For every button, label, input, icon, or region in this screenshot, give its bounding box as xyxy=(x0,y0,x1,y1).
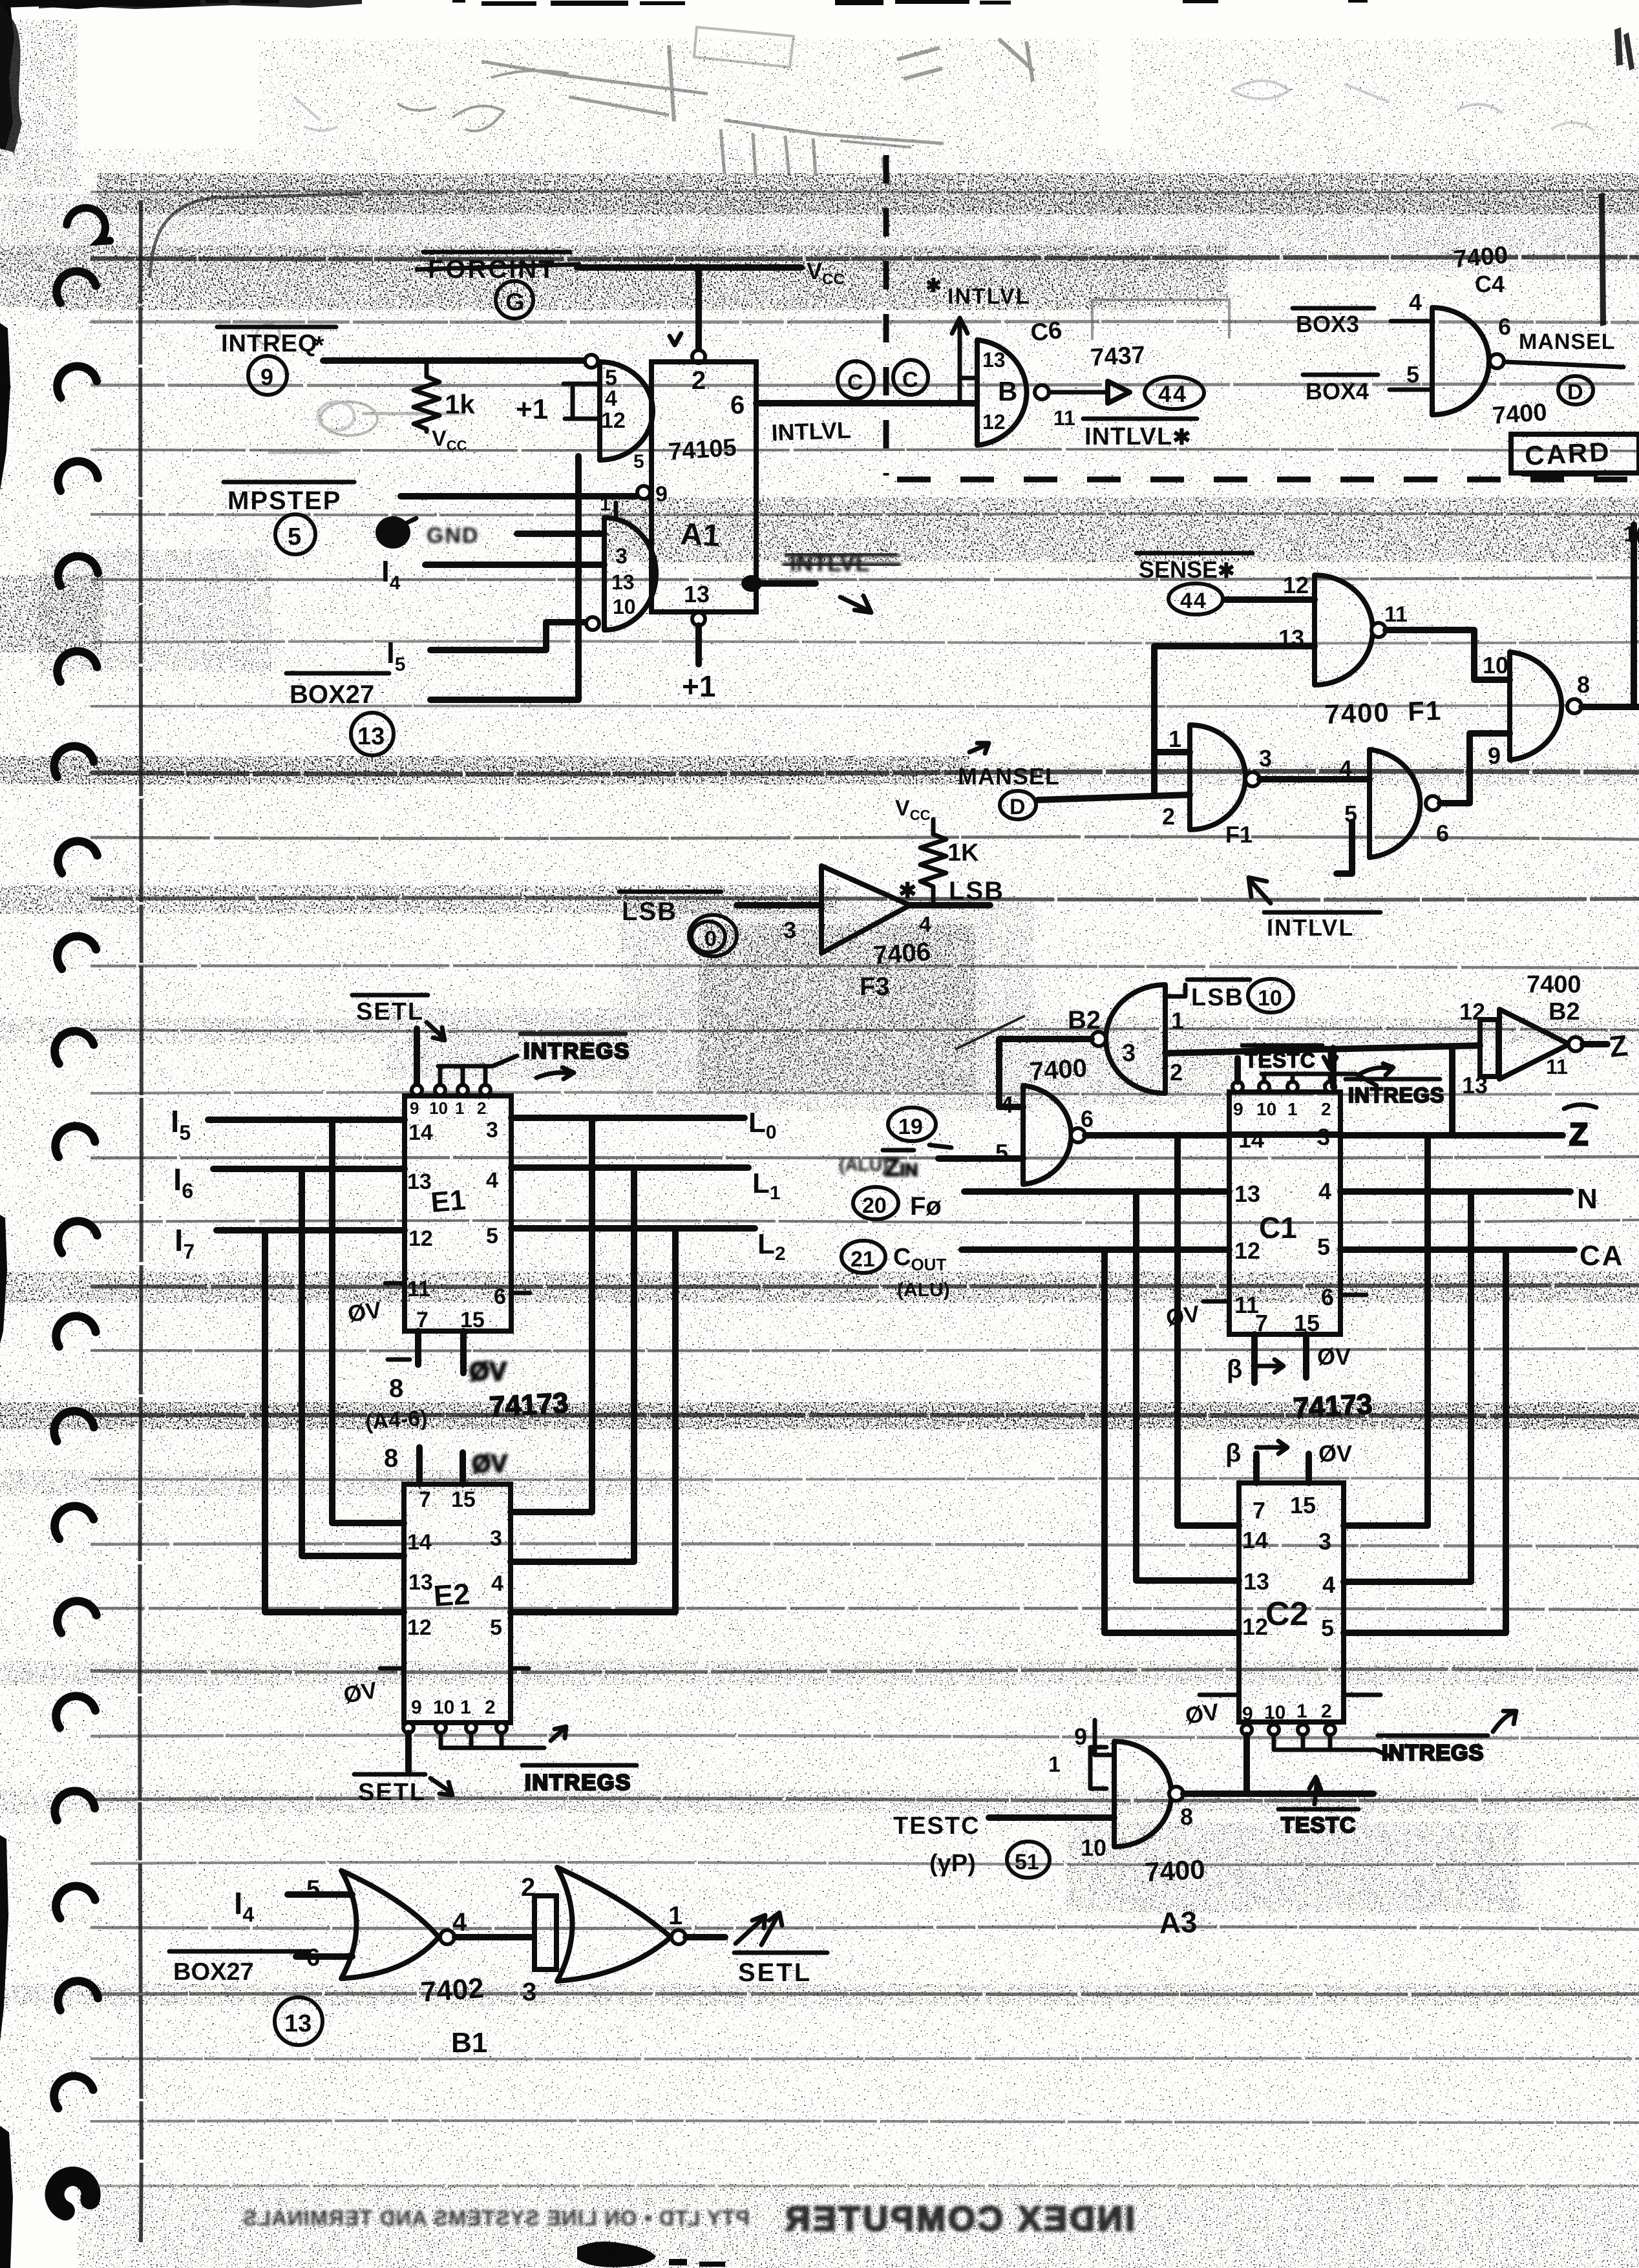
svg-text:1: 1 xyxy=(1171,1007,1184,1034)
CARD label box xyxy=(1511,434,1639,474)
svg-text:PTY LTD • ON LINE SYSTEMS AND: PTY LTD • ON LINE SYSTEMS AND TERMINALS xyxy=(242,2206,750,2230)
INTLVL arrow label xyxy=(1249,877,1271,903)
svg-text:5: 5 xyxy=(1406,361,1419,388)
E1 pin7 wire down, 8bar xyxy=(415,1331,421,1365)
svg-text:BOX27: BOX27 xyxy=(173,1958,254,1986)
wire pin2 net up xyxy=(1330,1048,1337,1087)
svg-text:7: 7 xyxy=(1253,1497,1265,1524)
svg-text:7400: 7400 xyxy=(1527,971,1581,998)
svg-text:5: 5 xyxy=(1317,1234,1330,1260)
svg-text:3: 3 xyxy=(522,1978,536,2006)
svg-text:1K: 1K xyxy=(947,839,979,866)
svg-text:B2: B2 xyxy=(1068,1006,1101,1034)
spiral binder holes, left edge xyxy=(48,203,111,2212)
resistor R 1k pull-up xyxy=(414,361,475,454)
svg-text:7406: 7406 xyxy=(872,938,932,970)
node BOX3 xyxy=(1293,308,1374,337)
gate A1a (pins 5,4,12) xyxy=(600,362,653,460)
svg-text:4: 4 xyxy=(1409,289,1422,315)
wire B1a out to B1b xyxy=(455,1934,531,1940)
svg-text:A3: A3 xyxy=(1159,1905,1198,1940)
pen arrows xyxy=(735,1913,782,1945)
C2 bottom bubbles xyxy=(1242,1725,1252,1735)
wire LSB to buffer xyxy=(737,902,821,908)
svg-text:13: 13 xyxy=(684,581,710,607)
svg-text:1: 1 xyxy=(1287,1099,1298,1119)
svg-text:TESTC: TESTC xyxy=(1245,1049,1316,1072)
svg-text:51: 51 xyxy=(1015,1850,1039,1874)
ghost rect around 7437 xyxy=(1092,300,1229,340)
wire inverter out Z xyxy=(1583,1041,1607,1047)
E2 pin11 stub, 0V xyxy=(380,1666,404,1671)
svg-text:C6: C6 xyxy=(1030,317,1064,347)
input bubble xyxy=(585,355,598,368)
wire branch up from Zbar to inverter net xyxy=(1449,1047,1455,1135)
node TESTC bar under wire xyxy=(1278,1777,1359,1838)
v tick above gate xyxy=(670,333,681,345)
wire B1b out SETL xyxy=(686,1934,725,1940)
svg-text:44: 44 xyxy=(1180,589,1207,613)
INTLVL up arrow from gate input xyxy=(925,275,1030,403)
svg-text:12: 12 xyxy=(408,1226,433,1251)
pin 5 stub xyxy=(1390,388,1432,392)
svg-text:4: 4 xyxy=(919,912,931,937)
E1 pin6 stub xyxy=(511,1291,530,1296)
wire I7 branch down to E2 pin12 xyxy=(265,1230,404,1612)
svg-text:14: 14 xyxy=(1242,1527,1268,1553)
C2 pin3 stub xyxy=(1344,1522,1428,1529)
svg-text:6: 6 xyxy=(494,1285,506,1309)
svg-text:9: 9 xyxy=(1074,1723,1087,1750)
svg-text:12: 12 xyxy=(1242,1613,1268,1640)
E2 pin15 wire up, 0V xyxy=(460,1453,466,1484)
svg-text:5: 5 xyxy=(306,1876,320,1903)
wire 44 to F1a pin12 xyxy=(1225,596,1315,603)
inverter B2 7400 xyxy=(1499,1009,1569,1079)
svg-text:2: 2 xyxy=(1162,803,1175,830)
pen pointer line xyxy=(955,1016,1025,1049)
svg-text:8: 8 xyxy=(1180,1803,1193,1830)
node TESTC down to pin 9 xyxy=(1234,1058,1241,1082)
svg-text:✱: ✱ xyxy=(925,275,942,297)
svg-text:7400: 7400 xyxy=(1144,1854,1206,1887)
node 20 circled F0 xyxy=(853,1187,898,1219)
wire INTREQ to gate xyxy=(323,357,585,364)
pin 9 bubble xyxy=(637,486,650,499)
svg-text:B1: B1 xyxy=(451,2027,487,2059)
svg-text:(ALU): (ALU) xyxy=(897,1279,950,1301)
svg-text:1: 1 xyxy=(1048,1752,1061,1777)
gate F1c (4,5,6) xyxy=(1369,750,1420,857)
node C circled (right of boundary) xyxy=(893,360,928,395)
svg-text:TESTC: TESTC xyxy=(893,1812,980,1840)
svg-text:(γP): (γP) xyxy=(929,1850,976,1877)
gate A1b (pins 3,13,10) xyxy=(604,518,656,630)
svg-text:3: 3 xyxy=(490,1526,502,1551)
svg-text:3: 3 xyxy=(1122,1040,1136,1067)
svg-text:6: 6 xyxy=(1436,820,1449,846)
svg-text:1(: 1( xyxy=(1623,522,1639,547)
node 13 circled bottom xyxy=(275,1997,323,2045)
svg-text:12: 12 xyxy=(1459,998,1485,1025)
svg-text:4: 4 xyxy=(486,1168,498,1193)
svg-text:15: 15 xyxy=(451,1487,476,1512)
svg-text:4: 4 xyxy=(1000,1091,1013,1118)
svg-text:13: 13 xyxy=(284,2010,312,2037)
svg-text:SENSE✱: SENSE✱ xyxy=(1139,556,1235,583)
node 21 circled Cout xyxy=(841,1241,885,1273)
svg-text:BOX27: BOX27 xyxy=(290,680,374,709)
svg-text:13: 13 xyxy=(1243,1568,1269,1595)
svg-text:LSB: LSB xyxy=(949,877,1004,905)
heavier speckle bands (smudges along rules) xyxy=(97,173,1639,215)
svg-text:10: 10 xyxy=(1258,986,1282,1011)
node SETL bottom xyxy=(354,1774,452,1806)
svg-text:13: 13 xyxy=(408,1570,433,1595)
node D circled in xyxy=(1000,791,1036,819)
C1 pin11 stub 0V xyxy=(1203,1299,1229,1304)
wire branch down to C2 pin14 xyxy=(1178,1135,1239,1526)
svg-text:7400 F1: 7400 F1 xyxy=(1324,695,1443,730)
svg-text:6: 6 xyxy=(730,391,745,419)
node G xyxy=(496,281,533,319)
svg-text:INTLVL✱: INTLVL✱ xyxy=(1084,423,1192,450)
node BOX27 xyxy=(286,673,389,709)
svg-text:10: 10 xyxy=(1264,1702,1285,1723)
svg-text:8: 8 xyxy=(389,1374,403,1403)
svg-text:4: 4 xyxy=(491,1571,503,1596)
wire branch down to C2 pin3 xyxy=(1424,1135,1431,1526)
svg-text:ØV: ØV xyxy=(1183,1698,1220,1729)
node 13 circled xyxy=(351,713,394,755)
svg-text:2: 2 xyxy=(477,1098,486,1118)
svg-text:SETL: SETL xyxy=(358,1779,426,1806)
svg-text:11: 11 xyxy=(1546,1055,1568,1078)
node 19 circled xyxy=(888,1108,951,1148)
wire I5 branch down to E2 pin14 xyxy=(332,1120,404,1523)
wire I6 branch down to E2 pin13 xyxy=(302,1169,404,1556)
faint ghost circles under INTREQ xyxy=(257,324,465,452)
gate B C6 7437 xyxy=(977,340,1027,445)
gate B2a mirrored NAND (1,2 -> 3) xyxy=(1106,985,1165,1093)
node 10 circled xyxy=(689,915,737,956)
svg-text:3: 3 xyxy=(783,917,796,943)
wire SETL to E1 pin9 xyxy=(414,1029,420,1084)
svg-text:10: 10 xyxy=(1256,1099,1276,1119)
E1 top pin bubbles xyxy=(412,1085,422,1095)
wire I5 to gate pin10 xyxy=(430,622,585,650)
node LSB in xyxy=(619,892,721,926)
svg-text:14: 14 xyxy=(408,1120,433,1145)
wire F1d out xyxy=(1581,704,1639,710)
svg-text:21: 21 xyxy=(851,1247,875,1272)
E2 pin6 stub xyxy=(511,1666,529,1671)
svg-text:7: 7 xyxy=(419,1487,431,1512)
wire INTLVL into pin5 xyxy=(1337,822,1352,874)
svg-text:20: 20 xyxy=(862,1193,887,1218)
svg-text:✱: ✱ xyxy=(898,879,917,903)
mirrored photocopy text at bottom xyxy=(242,2200,1135,2238)
svg-text:Z: Z xyxy=(1569,1118,1588,1152)
svg-text:D: D xyxy=(1010,795,1026,819)
svg-text:Z: Z xyxy=(1608,1028,1629,1064)
wire E1 pin5 to L2 xyxy=(511,1225,755,1232)
left margin rule of notebook page xyxy=(140,200,142,2242)
svg-text:13: 13 xyxy=(407,1170,432,1194)
bottom-left ink blob xyxy=(577,2242,656,2267)
node INTLVL* out xyxy=(1083,419,1197,450)
svg-text:6: 6 xyxy=(1081,1106,1094,1132)
svg-text:3: 3 xyxy=(1259,745,1272,772)
svg-text:INTREGS: INTREGS xyxy=(1348,1084,1444,1107)
svg-text:2: 2 xyxy=(692,366,706,395)
E2 pin7 wire up xyxy=(416,1447,423,1484)
svg-text:INTLVL: INTLVL xyxy=(947,284,1030,309)
svg-text:C1: C1 xyxy=(1259,1211,1297,1244)
svg-text:1: 1 xyxy=(455,1098,464,1118)
svg-text:CA: CA xyxy=(1580,1240,1625,1272)
svg-text:F1: F1 xyxy=(1225,821,1253,848)
svg-text:+1: +1 xyxy=(516,394,548,425)
node 10 circled mid xyxy=(1248,979,1293,1013)
E1 pin15 wire down, 0V xyxy=(460,1331,467,1373)
svg-text:1: 1 xyxy=(1296,1701,1307,1722)
node INTREGS mid xyxy=(1346,1064,1444,1107)
wire buffer out LSB xyxy=(910,902,990,908)
svg-text:13: 13 xyxy=(611,571,635,594)
svg-text:9: 9 xyxy=(1488,742,1501,769)
E2 bottom bubbles xyxy=(403,1723,414,1733)
svg-text:9: 9 xyxy=(260,364,273,390)
node 44 circled in xyxy=(1168,583,1223,614)
wire MPSTEP to pin 9 xyxy=(401,493,637,499)
wire I5 to E1 pin14 xyxy=(208,1117,405,1123)
svg-text:3: 3 xyxy=(486,1118,498,1142)
wire C1 pin3 out Zbar xyxy=(1340,1132,1563,1139)
svg-text:13: 13 xyxy=(1234,1181,1260,1207)
svg-text:CARD: CARD xyxy=(1524,436,1612,471)
svg-text:13: 13 xyxy=(982,348,1006,372)
svg-text:B2: B2 xyxy=(1549,998,1580,1025)
svg-text:7400: 7400 xyxy=(1029,1054,1088,1086)
svg-text:E1: E1 xyxy=(430,1184,467,1219)
wire C1 pin5 out CA xyxy=(1340,1246,1574,1253)
wire I6 to E1 pin13 xyxy=(213,1166,405,1172)
svg-text:11: 11 xyxy=(1053,406,1075,430)
pin 2 bubble xyxy=(692,350,705,363)
svg-text:INDEX COMPUTER: INDEX COMPUTER xyxy=(783,2200,1135,2238)
node MPSTEP xyxy=(224,482,354,515)
svg-text:5: 5 xyxy=(633,451,644,472)
node +1 to tied inputs xyxy=(516,384,600,425)
svg-text:2: 2 xyxy=(521,1873,535,1902)
svg-text:12: 12 xyxy=(1234,1237,1260,1264)
svg-text:E2: E2 xyxy=(432,1577,471,1613)
IC C1 74173 xyxy=(1229,1092,1340,1334)
C2 pin5 stub xyxy=(1344,1630,1506,1636)
svg-text:8: 8 xyxy=(384,1444,398,1473)
C1 pin6 stub xyxy=(1340,1293,1366,1297)
node SETL top xyxy=(352,995,445,1040)
wire F1a out to F1d pin10 xyxy=(1386,630,1510,680)
svg-text:5: 5 xyxy=(1321,1615,1334,1641)
svg-text:0: 0 xyxy=(704,927,717,951)
svg-text:C4: C4 xyxy=(1475,271,1505,297)
svg-text:MANSEL: MANSEL xyxy=(958,763,1060,790)
pin9 elbow xyxy=(1095,1720,1114,1755)
svg-text:1: 1 xyxy=(600,494,611,515)
wire A1 pin6 out (INTLVL) xyxy=(756,400,976,406)
gate B1a 7402 NOR (5,6 -> 4) xyxy=(341,1871,439,1979)
svg-text:74105: 74105 xyxy=(668,434,737,466)
wire right edge vertical xyxy=(1631,525,1637,704)
svg-text:13: 13 xyxy=(1462,1072,1488,1098)
gate F1d (10,9,8) xyxy=(1510,652,1561,760)
node C circled (left of boundary) xyxy=(838,361,874,399)
node GND xyxy=(375,516,480,549)
C2 pin4 stub xyxy=(1344,1579,1471,1585)
INTREGS bracket on C1 xyxy=(1262,1074,1377,1086)
wire Cout to C1 pin12 xyxy=(962,1246,1229,1253)
svg-text:8: 8 xyxy=(1577,671,1590,698)
wire F0 to C1 pin13 xyxy=(964,1188,1229,1195)
node 9 circled xyxy=(248,356,287,395)
node INTREGS bottom left xyxy=(522,1727,637,1795)
IC E2 74173 xyxy=(404,1484,511,1723)
svg-text:7400: 7400 xyxy=(1492,399,1548,430)
svg-text:ØV: ØV xyxy=(1317,1343,1351,1370)
wire C2 pin9 down to TESTC net xyxy=(1243,1735,1250,1794)
C2 pin6 stub xyxy=(1344,1693,1380,1697)
wire I4 to gate pin13 xyxy=(425,562,604,568)
svg-text:7: 7 xyxy=(1255,1310,1268,1336)
C1 pin7 pin15 down wires xyxy=(1254,1334,1306,1383)
svg-text:3: 3 xyxy=(615,544,628,569)
svg-text:3: 3 xyxy=(1318,1528,1331,1555)
wire Zin to B2b pin5 xyxy=(938,1155,1023,1162)
svg-text:5: 5 xyxy=(490,1615,502,1640)
gate B1b 7402 NOR (2,3 -> 1) xyxy=(557,1867,671,1981)
svg-text:2: 2 xyxy=(485,1697,496,1718)
node INTREGS bottom right xyxy=(1378,1711,1516,1765)
pin 13 bottom bubble and +1 xyxy=(692,613,705,625)
pin10 input bubble xyxy=(586,617,599,630)
page edge shadow top-left corner xyxy=(150,194,362,278)
resistor RK pull-up xyxy=(895,796,979,905)
gate F1b (1,2,3) xyxy=(1190,725,1245,830)
wire branch down to C2 pin4 xyxy=(1468,1192,1474,1582)
wire L2 branch down to E2 pin5 xyxy=(511,1228,675,1612)
svg-text:F3: F3 xyxy=(860,972,890,1001)
svg-text:*: * xyxy=(314,331,324,360)
black scanner edge marks xyxy=(0,0,200,9)
wire down to A1 pin 2 xyxy=(695,269,702,350)
E1 pin11 stub and 0V xyxy=(385,1281,405,1286)
svg-text:INTREQ: INTREQ xyxy=(221,330,318,357)
svg-text:β: β xyxy=(1225,1439,1241,1467)
wire C1 pin4 out N xyxy=(1340,1188,1570,1195)
svg-text:BOX4: BOX4 xyxy=(1306,378,1369,404)
node BOX27 bottom xyxy=(169,1951,309,1986)
svg-text:ØV: ØV xyxy=(346,1296,383,1327)
svg-text:4: 4 xyxy=(1339,755,1352,782)
IC E1 74173 xyxy=(405,1096,511,1331)
svg-text:BOX3: BOX3 xyxy=(1296,311,1359,337)
svg-text:10: 10 xyxy=(429,1098,448,1118)
tied bracket tick xyxy=(1090,1747,1106,1789)
wire pin13/pin1 tie xyxy=(1154,646,1315,793)
wire E1 pin3 to L0 xyxy=(511,1115,745,1121)
node 44 circled xyxy=(1145,377,1204,409)
svg-text:1: 1 xyxy=(460,1697,471,1718)
svg-text:INTLVL: INTLVL xyxy=(1267,914,1354,941)
node BOX4 xyxy=(1303,375,1378,404)
svg-text:14: 14 xyxy=(407,1530,432,1555)
svg-text:C: C xyxy=(847,370,863,395)
wire E2 pin9 to SETL xyxy=(405,1733,412,1770)
node D circled xyxy=(1558,376,1593,404)
svg-text:GND: GND xyxy=(427,523,480,548)
svg-text:C2: C2 xyxy=(1265,1595,1308,1633)
wire branch down to C2 pin12 xyxy=(1105,1250,1239,1633)
wire B2a out to B2b pin4 elbow xyxy=(999,1039,1092,1107)
wire B2b out through C1 pin14/pin3 xyxy=(1085,1135,1340,1135)
wire B2a pin2 to inverter input net xyxy=(1165,1045,1480,1053)
wire L1 branch down to E2 pin4 xyxy=(511,1168,634,1562)
svg-text:5: 5 xyxy=(486,1224,498,1248)
svg-text:2: 2 xyxy=(1321,1701,1332,1722)
svg-text:6: 6 xyxy=(1498,313,1511,340)
svg-text:12: 12 xyxy=(982,410,1006,434)
svg-text:A1: A1 xyxy=(679,517,721,553)
wire BOX27 up to gate A1a pin 12 xyxy=(430,456,578,700)
svg-text:12: 12 xyxy=(407,1615,432,1640)
IC C2 74173 xyxy=(1239,1483,1344,1722)
wire L0 branch down to E2 pin3 xyxy=(511,1118,592,1512)
gate A3 7400 (9,10 -> 8) xyxy=(1114,1741,1172,1847)
svg-text:D: D xyxy=(1567,380,1583,404)
svg-text:β: β xyxy=(1227,1355,1242,1383)
wire MANSEL out xyxy=(1504,362,1623,367)
top ghost scribbles xyxy=(294,27,1594,185)
wire F1c out to F1d pin9 xyxy=(1440,733,1510,803)
svg-text:INTREGS: INTREGS xyxy=(1382,1741,1484,1765)
svg-text:4: 4 xyxy=(1322,1571,1335,1598)
svg-text:TESTC: TESTC xyxy=(1281,1813,1356,1838)
svg-text:ØV: ØV xyxy=(1164,1300,1201,1331)
svg-text:SETL: SETL xyxy=(738,1958,812,1987)
svg-text:ØV: ØV xyxy=(1318,1440,1352,1467)
svg-text:(A4-6): (A4-6) xyxy=(365,1405,428,1434)
node INTREGS top xyxy=(520,1034,630,1079)
pin 4 stub xyxy=(1391,319,1432,324)
node Zbar xyxy=(1564,1104,1596,1109)
svg-text:15: 15 xyxy=(1290,1492,1316,1518)
buffer F3 7406 triangle xyxy=(821,866,910,953)
gate F1a (12,13,11) xyxy=(1315,575,1373,685)
wire branch down to C2 pin13 xyxy=(1136,1192,1239,1580)
gate B2b (4,5 -> 6) xyxy=(1023,1086,1071,1184)
svg-text:SETL: SETL xyxy=(356,998,424,1025)
node LSB mid xyxy=(1187,980,1250,1011)
svg-text:2: 2 xyxy=(1170,1059,1183,1086)
node INTREQ* xyxy=(217,327,336,360)
svg-text:ØV: ØV xyxy=(469,1358,507,1386)
svg-text:MANSEL: MANSEL xyxy=(1519,330,1616,354)
svg-text:ØV: ØV xyxy=(472,1451,508,1478)
pin1 stub to LSB xyxy=(1165,985,1185,996)
svg-text:7437: 7437 xyxy=(1090,342,1146,372)
